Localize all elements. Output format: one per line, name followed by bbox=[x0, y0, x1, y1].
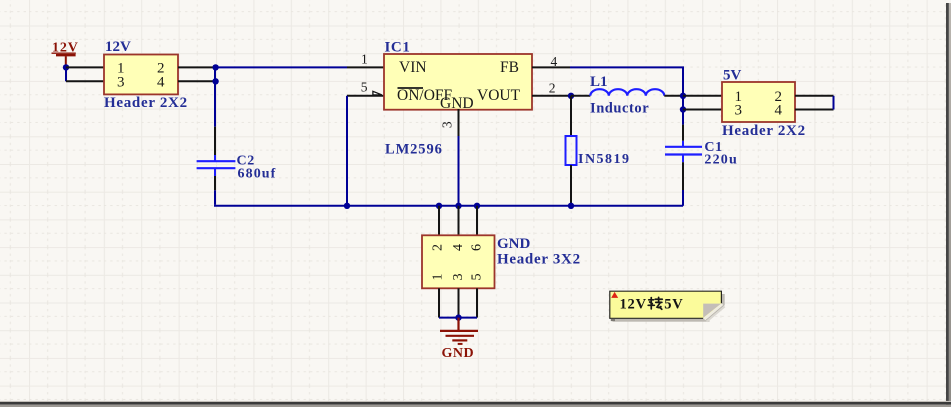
wire FB to output node bbox=[570, 67, 683, 109]
wire C2 to rail bbox=[214, 190, 216, 205]
svg-text:3: 3 bbox=[440, 121, 455, 128]
svg-text:IN5819: IN5819 bbox=[578, 152, 631, 167]
svg-text:Inductor: Inductor bbox=[590, 100, 649, 116]
svg-text:FB: FB bbox=[500, 59, 519, 76]
junction dot diode to rail bbox=[568, 203, 574, 209]
pin of C2 top bbox=[214, 127, 216, 155]
ground symbol GND bbox=[440, 318, 478, 362]
pin of C2 bottom lower bbox=[214, 176, 216, 190]
svg-text:5V: 5V bbox=[664, 296, 683, 312]
wire 12V to VIN bbox=[216, 66, 347, 68]
window edge right bbox=[946, 3, 949, 407]
svg-text:VOUT: VOUT bbox=[477, 87, 521, 104]
svg-text:3: 3 bbox=[735, 103, 743, 119]
junction dot output node bottom bbox=[680, 106, 686, 112]
junction dot gnd bus bbox=[455, 314, 461, 320]
wire C1 to rail bbox=[682, 190, 684, 206]
svg-text:GND: GND bbox=[440, 95, 474, 112]
svg-text:GND: GND bbox=[497, 236, 531, 252]
svg-text:LM2596: LM2596 bbox=[385, 142, 443, 158]
junction dot bbox=[212, 64, 218, 70]
wire C2 top bbox=[214, 67, 216, 126]
svg-text:12V: 12V bbox=[105, 39, 131, 55]
pin stub of C2 top bbox=[214, 155, 216, 161]
svg-text:1: 1 bbox=[361, 52, 368, 67]
wire joining bottom pins bbox=[439, 317, 477, 319]
svg-text:2: 2 bbox=[431, 244, 446, 251]
pin 5 ON/OFF of IC1 bbox=[347, 79, 384, 96]
svg-text:Header 3X2: Header 3X2 bbox=[497, 252, 581, 268]
pin 5 of GND header bottom bbox=[476, 288, 478, 317]
svg-text:6: 6 bbox=[470, 244, 485, 251]
node 12V junction bbox=[63, 64, 69, 70]
connector 12V Header 2X2 bbox=[104, 39, 188, 111]
pin of C1 bottom black bbox=[682, 162, 684, 190]
pin 2 of 5V header bbox=[795, 95, 834, 97]
pin 4 of 5V header bbox=[795, 109, 834, 111]
capacitor C1 bbox=[665, 140, 738, 168]
svg-text:3: 3 bbox=[451, 274, 466, 281]
svg-text:5: 5 bbox=[470, 274, 485, 281]
pin 3 of GND header bottom bbox=[458, 288, 460, 317]
power symbol 12V bbox=[52, 41, 79, 67]
wire joining pins 2 and 4 bbox=[833, 96, 835, 110]
svg-text:VIN: VIN bbox=[399, 59, 427, 76]
window edge bottom bbox=[0, 401, 951, 402]
pin 4 of GND header bbox=[458, 206, 460, 236]
pin 1 VIN of IC1 bbox=[347, 52, 384, 68]
pin 2 VOUT of IC1 bbox=[532, 80, 570, 95]
svg-text:IC1: IC1 bbox=[385, 39, 411, 55]
svg-text:5: 5 bbox=[361, 79, 368, 94]
svg-text:12V: 12V bbox=[620, 296, 647, 312]
note 12V to 5V sticky bbox=[610, 291, 726, 322]
diode D1 IN5819 bbox=[566, 136, 631, 167]
pin of L1 right bbox=[664, 95, 683, 97]
note marker triangle bbox=[611, 292, 618, 298]
junction dot bbox=[212, 78, 218, 84]
svg-text:4: 4 bbox=[775, 103, 783, 119]
svg-text:5V: 5V bbox=[723, 68, 742, 84]
pin 1 of 5V header bbox=[683, 95, 722, 97]
pin of diode bottom bbox=[570, 165, 572, 206]
junction dot output node top bbox=[680, 93, 686, 99]
pin of diode top bbox=[570, 96, 572, 136]
pin 3 of 5V header bbox=[683, 109, 722, 111]
junction dot rail gnd2 bbox=[455, 203, 461, 209]
svg-text:L1: L1 bbox=[590, 74, 608, 90]
svg-text:680uf: 680uf bbox=[238, 166, 277, 181]
junction dot rail gnd3 bbox=[474, 203, 480, 209]
svg-text:Header 2X2: Header 2X2 bbox=[722, 123, 806, 139]
svg-text:2: 2 bbox=[549, 80, 556, 95]
pin of C2 bottom bbox=[214, 168, 216, 176]
pin 3 of 12V header bbox=[66, 80, 104, 82]
note text 12V转5V bbox=[620, 296, 684, 312]
IC U1 IC1 LM2596 body bbox=[384, 39, 532, 157]
wire IC GND to rail bbox=[458, 136, 460, 206]
svg-text:3: 3 bbox=[117, 74, 125, 90]
pin stub of C1 top bbox=[682, 141, 684, 147]
pin 1 of GND header bottom bbox=[438, 288, 440, 317]
wire GND rail bbox=[214, 205, 683, 207]
svg-text:220u: 220u bbox=[704, 153, 738, 168]
capacitor C2 bbox=[197, 153, 277, 181]
pin of C1 top bbox=[682, 110, 684, 125]
svg-text:GND: GND bbox=[442, 346, 475, 361]
pin 6 of GND header bbox=[476, 206, 478, 236]
pin of C1 top black bbox=[682, 125, 684, 141]
inductor L1 bbox=[590, 74, 664, 116]
connector 5V Header 2X2 bbox=[722, 68, 806, 140]
connector GND Header 3X2 bbox=[422, 235, 581, 288]
junction dot on rail at ON/OFF bbox=[344, 203, 350, 209]
pin 2 of GND header bbox=[438, 206, 440, 236]
wire 12V vertical bbox=[65, 67, 67, 81]
svg-text:4: 4 bbox=[157, 74, 165, 90]
junction dot rail gnd1 bbox=[436, 203, 442, 209]
svg-text:Header 2X2: Header 2X2 bbox=[104, 95, 188, 111]
svg-text:4: 4 bbox=[451, 244, 466, 251]
pin 3 GND of IC1 bbox=[440, 109, 459, 136]
pin of L1 left bbox=[571, 95, 590, 97]
pin 1 of 12V header bbox=[66, 66, 104, 68]
pin 4 FB of IC1 bbox=[532, 54, 570, 69]
svg-text:1: 1 bbox=[431, 274, 446, 281]
pin of C1 bottom bbox=[682, 155, 684, 163]
pin 4 of 12V header bbox=[178, 80, 216, 82]
junction dot VOUT node bbox=[568, 93, 574, 99]
pin 2 of 12V header bbox=[178, 66, 216, 68]
wire ON/OFF to rail bbox=[346, 96, 348, 206]
